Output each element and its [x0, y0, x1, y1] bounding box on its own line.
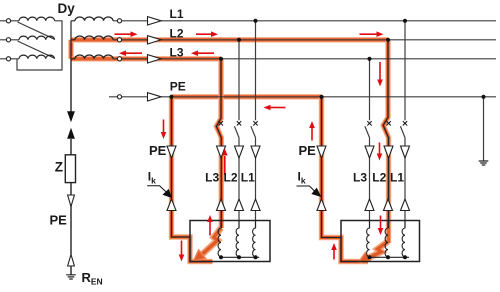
conductor marker down, right PE drop — [317, 146, 326, 158]
wire delta diagonal 1 — [18, 22, 55, 39]
terminal circle primary 2 — [6, 38, 10, 42]
transformer secondary winding L2 — [75, 36, 113, 40]
wire highlight: L3 bus from transformer to left feeder drop — [71, 56, 221, 61]
star point link left motor — [221, 256, 259, 258]
current arrow right on L2 bus before right drop — [360, 31, 384, 37]
breaker contact mark right L2 — [386, 121, 390, 125]
svg-text:L3: L3 — [353, 171, 367, 185]
wire right L3 drop upper — [369, 59, 371, 121]
conductor marker down, left L2 drop — [235, 146, 244, 158]
svg-text:Z: Z — [55, 160, 63, 175]
wire right L3 drop lower — [369, 138, 371, 228]
left load enclosure box — [190, 221, 270, 262]
svg-text:L2: L2 — [223, 171, 237, 185]
svg-text:L1: L1 — [390, 171, 404, 185]
fault flash arrow in right load (L2 winding to frame) — [359, 242, 389, 263]
breaker contact mark left L2 — [237, 121, 241, 125]
current arrow left on L3 bus near transformer — [119, 50, 142, 56]
breaker contact mark left L1 — [253, 121, 257, 125]
wire L2 bus — [122, 39, 496, 41]
motor winding right L3 — [367, 221, 370, 257]
impedance Z box — [65, 155, 75, 183]
wire neutral down to earthing — [70, 59, 72, 275]
junction dot right motor star L2 — [386, 255, 390, 259]
wire highlight: L3 drop with breaker jog into left load — [216, 59, 221, 228]
terminal circle secondary L2 — [117, 38, 121, 42]
motor winding left L2 — [236, 221, 239, 257]
pointer arrow Ik right — [297, 186, 316, 192]
wire highlight: right PE drop down to right load frame — [322, 97, 369, 262]
wire left L2 drop lower — [238, 138, 240, 228]
terminal circle secondary L1 — [117, 19, 121, 23]
junction dot PE left drop — [169, 95, 173, 99]
line arrow symbol L3 — [148, 55, 162, 63]
terminal circle primary 3 — [6, 57, 10, 61]
transformer secondary winding L1 — [75, 17, 113, 21]
wire delta diagonal 2 — [18, 41, 55, 58]
transformer primary winding phase 3 — [19, 55, 55, 59]
junction dot L3 left drop — [219, 57, 223, 61]
svg-text:L1: L1 — [241, 171, 255, 185]
conductor marker down, right L3 drop — [365, 146, 374, 158]
wire right L2 drop core with breaker blade — [383, 40, 388, 228]
svg-text:Dy: Dy — [58, 1, 76, 16]
current arrow down inside right load box — [378, 216, 384, 236]
wire highlight: left PE drop down to left load frame — [172, 97, 213, 262]
current arrow up inside left load box — [207, 215, 213, 236]
conductor marker up, left L2 drop — [235, 199, 244, 211]
line arrow symbol PE — [148, 93, 162, 101]
wire highlight: fault path star point L2-L3 — [68, 40, 73, 59]
junction dot PE right drop — [319, 95, 323, 99]
svg-text:L3: L3 — [170, 45, 184, 59]
current arrow left on PE bus — [264, 105, 286, 111]
terminal circle primary 1 — [6, 19, 10, 23]
motor winding right L1 — [402, 221, 405, 257]
earth electrode symbol R_EN — [66, 275, 76, 279]
wire right group PE drop core — [322, 97, 341, 238]
wire highlight: L2 drop with breaker jog into right load — [383, 40, 388, 243]
conductor marker up, left L1 drop — [251, 199, 260, 211]
spark gap lower triangle on neutral — [67, 128, 75, 139]
current arrow down beside right L2 drop upper — [377, 62, 383, 87]
star point link right motor — [370, 256, 410, 258]
conductor marker up, right L3 drop — [365, 199, 374, 211]
svg-text:PE: PE — [149, 143, 167, 158]
wire PE bus — [109, 96, 496, 98]
current arrow down on left PE drop — [161, 120, 167, 140]
wire L3 bus — [122, 58, 496, 60]
conductor marker down, left L3 drop — [217, 146, 226, 158]
current arrow up beside left L3 drop — [222, 149, 228, 176]
spark gap upper triangle on neutral — [67, 111, 75, 122]
earth symbol right PE — [479, 161, 489, 165]
junction dot right motor star L1 — [403, 255, 407, 259]
transformer primary winding phase 1 — [19, 17, 55, 21]
breaker blade right L1 — [400, 126, 405, 137]
breaker contact mark left L3 — [219, 121, 223, 125]
wire right L1 drop upper — [404, 21, 406, 121]
conductor marker down, left PE drop — [167, 146, 176, 158]
junction dot left motor star L2 — [237, 255, 241, 259]
breaker contact mark right L3 — [367, 121, 371, 125]
conductor marker down, right L1 drop — [401, 146, 410, 158]
PE conductor marker (down) on neutral — [68, 195, 75, 207]
wire right PE earth drop — [483, 97, 485, 161]
current arrow up on right PE drop — [309, 121, 315, 141]
svg-text:PE: PE — [50, 213, 68, 228]
current arrow left on L3 bus after label — [191, 50, 214, 56]
svg-text:L2: L2 — [170, 26, 184, 40]
line arrow symbol L2 — [148, 36, 162, 44]
svg-text:Ik: Ik — [148, 170, 156, 186]
terminal circle secondary L3 — [117, 57, 121, 61]
svg-text:PE: PE — [170, 79, 186, 93]
pointer arrow Ik left — [147, 186, 166, 193]
svg-text:REN: REN — [82, 270, 103, 287]
conductor marker up, right PE drop — [317, 199, 326, 211]
wire star point vertical — [71, 21, 75, 59]
breaker blade left L2 — [234, 126, 239, 137]
svg-text:PE: PE — [299, 143, 317, 158]
conductor marker up, right L1 drop — [401, 199, 410, 211]
svg-text:Ik: Ik — [298, 170, 306, 186]
PE conductor marker (up) above earth electrode — [68, 255, 75, 267]
svg-text:L2: L2 — [372, 171, 386, 185]
wire left group PE drop core — [172, 97, 190, 237]
junction dot L1 left drop — [253, 19, 257, 23]
current arrow up beside right PE elbow — [331, 243, 337, 260]
breaker contact mark right L1 — [403, 121, 407, 125]
junction dot left motor star L1 — [254, 255, 258, 259]
svg-text:L1: L1 — [170, 7, 184, 21]
fault flash arrow in left load (L3 winding to frame) — [194, 228, 222, 261]
motor winding right L2 — [385, 221, 388, 257]
wire primary terminal stubs — [0, 21, 19, 59]
wire left L2 drop upper — [238, 40, 240, 121]
motor winding left L1 — [253, 221, 256, 257]
conductor marker up, right L2 drop — [384, 199, 393, 211]
conductor marker up, left PE drop — [167, 199, 176, 211]
wire right L1 drop lower — [404, 138, 406, 228]
current arrow down beside left PE elbow — [179, 241, 185, 262]
line arrow symbol L1 — [148, 17, 162, 25]
current arrow down beside right L2 drop lower — [377, 143, 383, 161]
motor winding left L3 — [218, 221, 221, 257]
junction dot PE earth drop — [481, 95, 485, 99]
junction dot L3 right drop — [367, 57, 371, 61]
wire delta loop of primary — [17, 21, 62, 70]
wire highlight: PE bus between the two PE drops — [172, 94, 322, 99]
terminal circle PE — [117, 95, 121, 99]
breaker blade right L3 — [365, 126, 370, 137]
wire left L1 drop lower — [255, 138, 257, 228]
current arrow right on L2 bus near transformer — [115, 31, 138, 37]
wire L1 bus — [122, 20, 496, 22]
transformer primary winding phase 2 — [19, 36, 55, 40]
conductor marker up, left L3 drop — [217, 199, 226, 211]
conductor marker down, left L1 drop — [251, 146, 260, 158]
wire highlight: L2 bus from transformer to right feeder drop — [71, 37, 388, 42]
breaker blade left L1 — [251, 126, 256, 137]
conductor marker down, right L2 drop — [384, 146, 393, 158]
right load enclosure box — [341, 221, 420, 262]
current arrow right on L2 bus after label — [196, 31, 218, 37]
junction dot left motor star L3 — [219, 255, 223, 259]
wire secondary coil leads to terminals — [113, 21, 117, 59]
wire left L1 drop upper — [255, 21, 257, 121]
junction dot L1 right drop — [403, 19, 407, 23]
junction dot right motor star L3 — [368, 255, 372, 259]
transformer secondary winding L3 — [75, 55, 113, 59]
junction dot L2 right drop — [386, 38, 390, 42]
junction dot L2 left drop — [237, 38, 241, 42]
wire left L3 drop core with breaker blade — [216, 59, 221, 228]
svg-text:L3: L3 — [205, 171, 219, 185]
